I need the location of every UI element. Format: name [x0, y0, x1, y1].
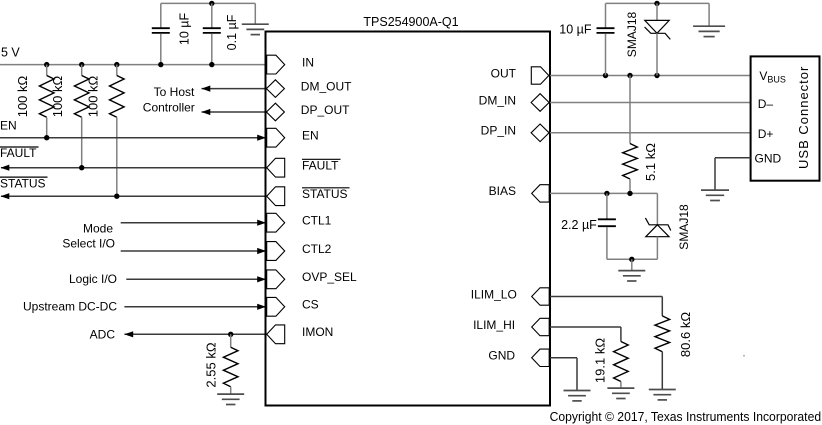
svg-text:100 kΩ: 100 kΩ: [85, 75, 100, 117]
pin OVP_SEL: [267, 270, 285, 289]
pin ILIM_LO: [532, 288, 550, 305]
svg-text:To Host: To Host: [154, 85, 195, 99]
arrow CTL2: [257, 248, 266, 254]
wire R1 top lead: [46, 65, 48, 76]
wire GND down: [576, 358, 578, 390]
wire DP_OUT: [202, 111, 267, 113]
wire R7 top lead: [620, 327, 622, 342]
junction 5V rail x=160.8: [158, 62, 163, 67]
wire C4 top lead: [606, 193, 608, 219]
resistor R5 5.1 k: [623, 144, 638, 179]
pin BIAS: [532, 185, 550, 202]
pin CTL1: [267, 213, 285, 232]
svg-text:IN: IN: [302, 55, 314, 69]
svg-text:FAULT: FAULT: [0, 146, 37, 160]
wire DP_IN to D+: [550, 132, 751, 134]
wire USB GND: [715, 157, 751, 159]
resistor R1 100 k: [39, 76, 54, 118]
svg-text:Select I/O: Select I/O: [62, 237, 115, 251]
pin STATUS: [267, 187, 285, 206]
wire R2 bottom lead: [81, 117, 83, 167]
wire C4 bottom lead: [606, 227, 608, 259]
pin CS: [267, 297, 285, 316]
svg-text:D–: D–: [758, 97, 774, 111]
junction VBUS x=605.5: [603, 73, 608, 78]
svg-text:BIAS: BIAS: [489, 184, 516, 198]
wire to ground top right: [708, 3, 710, 26]
ground USB: [701, 190, 729, 200]
wire 0.1uF top lead: [211, 3, 213, 28]
junction BIAS gnd: [629, 257, 634, 262]
svg-text:FAULT: FAULT: [302, 159, 339, 173]
arrow EN into pin: [257, 135, 266, 141]
capacitor C2 0.1 uF: [203, 28, 221, 33]
wire cap top rail: [161, 2, 256, 4]
resistor R3 100 k: [110, 76, 125, 118]
svg-text:CS: CS: [302, 298, 319, 312]
svg-text:Logic I/O: Logic I/O: [69, 272, 117, 286]
svg-text:10 µF: 10 µF: [178, 13, 192, 46]
ground R7: [607, 388, 634, 398]
pin FAULT: [267, 158, 285, 177]
junction 5V rail x=46.7: [44, 62, 49, 67]
wire R3 bottom lead: [116, 117, 118, 196]
svg-text:DM_IN: DM_IN: [479, 93, 516, 107]
pin DM_IN: [531, 94, 549, 112]
wire CTL2: [121, 250, 265, 252]
wire R6 bottom lead: [661, 352, 663, 390]
svg-text:100 kΩ: 100 kΩ: [50, 75, 65, 117]
wire ILIM_LO: [550, 296, 662, 298]
wire 10uF top lead: [160, 3, 162, 28]
svg-text:Controller: Controller: [143, 101, 195, 115]
wire R5 bottom lead: [629, 179, 631, 193]
junction 5V rail x=81.7: [79, 62, 84, 67]
junction BIAS/R5: [627, 191, 632, 196]
svg-text:STATUS: STATUS: [302, 187, 348, 201]
svg-text:19.1 kΩ: 19.1 kΩ: [592, 338, 607, 383]
arrow CTL1: [257, 220, 266, 226]
wire IMON: [124, 333, 267, 335]
junction VBUS x=657: [654, 73, 659, 78]
wire to ground: [254, 3, 256, 24]
wire R1 bottom lead: [46, 117, 48, 137]
resistor R2 100 k: [74, 76, 89, 118]
svg-text:DP_OUT: DP_OUT: [301, 103, 350, 117]
wire STATUS: [1, 195, 267, 197]
junction FAULT/R2: [79, 165, 84, 170]
pin IMON: [267, 325, 285, 344]
wire R2 top lead: [81, 65, 83, 76]
wire BIAS bottom: [607, 258, 658, 260]
wire EN: [0, 137, 265, 139]
junction 5V rail x=116.8: [114, 62, 119, 67]
pin IN: [267, 55, 285, 74]
wire D1 top lead: [656, 3, 658, 20]
arrow STATUS out: [1, 193, 10, 199]
svg-text:DP_IN: DP_IN: [481, 124, 516, 138]
svg-text:CTL1: CTL1: [302, 214, 332, 228]
svg-text:0.1 µF: 0.1 µF: [225, 14, 239, 50]
svg-text:ILIM_LO: ILIM_LO: [471, 287, 517, 301]
svg-text:EN: EN: [0, 119, 17, 133]
svg-text:2.55 kΩ: 2.55 kΩ: [204, 342, 219, 387]
resistor R4 2.55 k: [223, 347, 238, 387]
svg-text:5.1 kΩ: 5.1 kΩ: [643, 143, 658, 181]
pin EN: [267, 128, 285, 147]
arrow DM_OUT to host: [202, 86, 211, 92]
arrow IMON to ADC: [124, 331, 133, 337]
svg-text:D+: D+: [758, 127, 774, 141]
junction BIAS/C4: [604, 191, 609, 196]
speck: [743, 355, 745, 357]
wire OUT to VBUS: [550, 75, 751, 77]
wire BIAS: [550, 192, 657, 194]
wire DM_OUT: [202, 88, 267, 90]
wire R5 top lead: [629, 76, 631, 144]
svg-text:2.2 µF: 2.2 µF: [561, 218, 597, 232]
pin CTL2: [267, 242, 285, 261]
ground GND pin: [564, 391, 591, 401]
ground R4: [217, 394, 244, 404]
pin DP_IN: [531, 124, 549, 142]
pin DP_OUT: [266, 103, 284, 121]
svg-text:SMAJ18: SMAJ18: [625, 12, 639, 58]
diode D2 SMAJ18: [645, 218, 670, 237]
wire D1 bottom lead: [656, 33, 658, 75]
svg-text:5 V: 5 V: [1, 46, 20, 60]
svg-text:STATUS: STATUS: [0, 176, 46, 190]
capacitor C1 10 uF: [152, 28, 170, 33]
svg-text:GND: GND: [755, 151, 782, 165]
connector J1 USB: [751, 56, 820, 180]
wire C3 bottom lead: [605, 34, 607, 76]
svg-text:80.6 kΩ: 80.6 kΩ: [678, 312, 693, 357]
wire 0.1uF bottom lead: [211, 34, 213, 65]
resistor R7 19.1 k: [614, 342, 629, 382]
wire R4 bottom lead: [230, 387, 232, 394]
capacitor C3 10 uF: [597, 28, 615, 33]
svg-text:GND: GND: [488, 349, 515, 363]
svg-text:Upstream DC-DC: Upstream DC-DC: [23, 300, 117, 314]
wire C3 top lead: [605, 3, 607, 28]
wire R7 bottom lead: [620, 382, 622, 388]
wire R4 top lead: [230, 334, 232, 347]
svg-text:OUT: OUT: [491, 66, 517, 80]
resistor R6 80.6 k: [655, 316, 670, 352]
wire top right rail: [606, 2, 710, 4]
wire D2 bottom lead: [656, 237, 658, 260]
wire 10uF bottom lead: [160, 34, 162, 65]
wire USB GND down: [714, 158, 716, 190]
capacitor C4 2.2 uF: [598, 219, 616, 226]
svg-text:EN: EN: [302, 129, 319, 143]
arrow FAULT out: [1, 165, 10, 171]
svg-text:TPS254900A-Q1: TPS254900A-Q1: [363, 15, 458, 29]
arrow CS: [257, 304, 266, 310]
wire to ground BIAS: [631, 259, 633, 270]
junction VBUS x=630: [627, 73, 632, 78]
svg-text:100 kΩ: 100 kΩ: [15, 75, 30, 117]
ground top-left: [242, 24, 269, 34]
pin DM_OUT: [266, 80, 284, 98]
svg-text:OVP_SEL: OVP_SEL: [302, 270, 357, 284]
wire R6 top lead: [661, 297, 663, 316]
junction EN/R1: [44, 135, 49, 140]
svg-text:CTL2: CTL2: [302, 242, 332, 256]
ground R6: [649, 390, 676, 400]
svg-text:10 µF: 10 µF: [559, 23, 592, 37]
wire DM_IN to D-: [550, 102, 751, 104]
pin OUT: [531, 67, 549, 84]
svg-text:USB Connector: USB Connector: [796, 66, 811, 169]
arrow OVP_SEL: [257, 276, 266, 282]
svg-text:SMAJ18: SMAJ18: [677, 204, 691, 250]
wire CTL1: [121, 222, 265, 224]
ground BIAS: [618, 271, 645, 281]
ground top right: [693, 26, 725, 36]
junction top right: [654, 1, 659, 6]
junction cap top: [209, 1, 214, 6]
svg-text:Mode: Mode: [83, 222, 113, 236]
svg-text:DM_OUT: DM_OUT: [301, 79, 352, 93]
svg-text:Copyright © 2017, Texas Instru: Copyright © 2017, Texas Instruments Inco…: [550, 410, 822, 424]
wire OVP_SEL: [126, 278, 265, 280]
junction STATUS/R3: [114, 194, 119, 199]
wire ILIM_HI: [550, 326, 621, 328]
pin GND: [532, 349, 550, 366]
arrow DP_OUT to host: [202, 109, 211, 115]
pin ILIM_HI: [532, 318, 550, 335]
wire CS: [124, 306, 265, 308]
wire GND pin: [550, 357, 577, 359]
svg-text:IMON: IMON: [302, 325, 333, 339]
junction IMON/R4: [228, 332, 233, 337]
wire R3 top lead: [116, 65, 118, 76]
wire 5V rail: [0, 64, 267, 66]
svg-text:ILIM_HI: ILIM_HI: [473, 318, 515, 332]
svg-text:ADC: ADC: [90, 327, 116, 341]
wire D2 top lead: [656, 193, 658, 224]
diode D1 SMAJ18: [645, 20, 671, 39]
wire FAULT: [1, 167, 267, 169]
junction 5V rail x=211.8: [209, 62, 214, 67]
op-amp U1 TPS254900A-Q1 body: [266, 32, 551, 406]
